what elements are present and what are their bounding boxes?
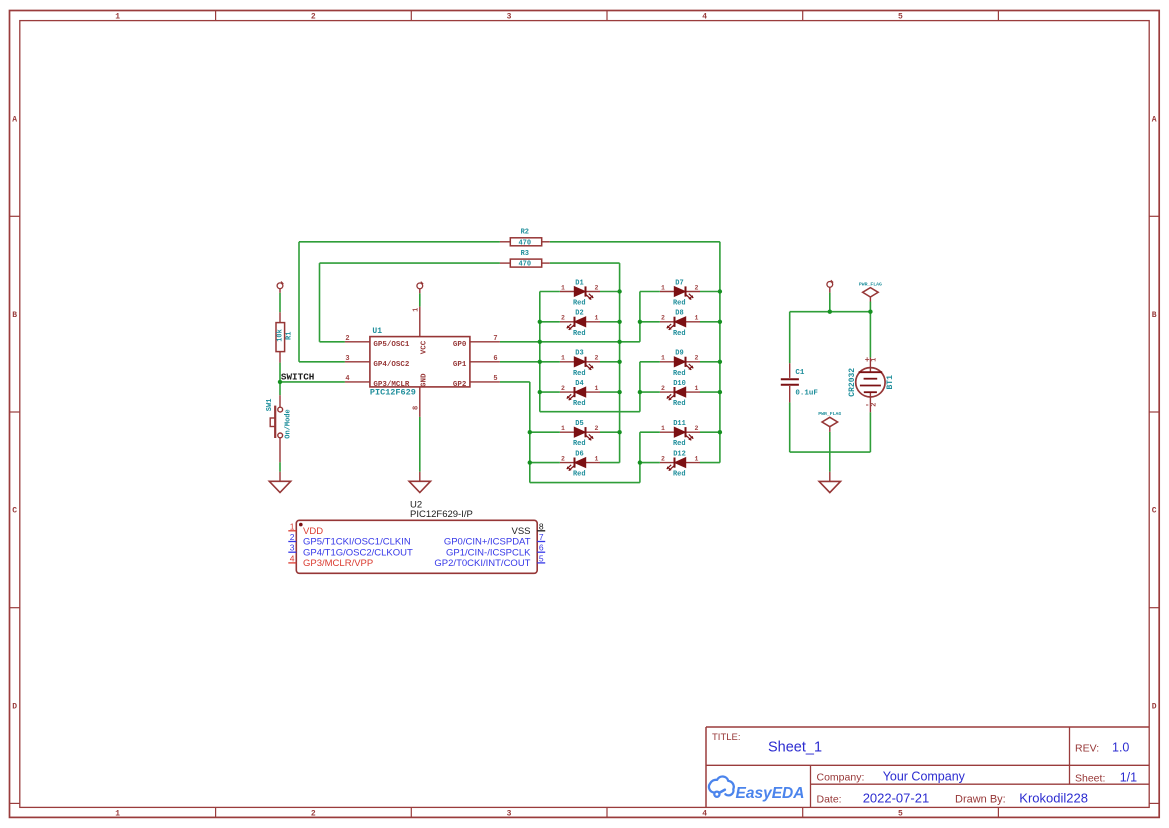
svg-text:Sheet_1: Sheet_1 — [768, 740, 822, 756]
svg-text:VSS: VSS — [511, 526, 530, 537]
svg-text:5: 5 — [493, 375, 497, 383]
svg-text:2: 2 — [695, 284, 699, 291]
svg-text:6: 6 — [493, 355, 497, 363]
svg-text:Red: Red — [673, 400, 686, 408]
svg-text:D11: D11 — [673, 420, 686, 428]
svg-text:D7: D7 — [675, 279, 683, 287]
svg-text:2: 2 — [661, 455, 665, 462]
svg-text:+: + — [865, 356, 870, 365]
svg-text:C: C — [1152, 507, 1157, 516]
svg-text:2: 2 — [561, 385, 565, 392]
svg-text:Date:: Date: — [817, 794, 842, 806]
svg-text:VDD: VDD — [303, 526, 323, 537]
svg-text:GND: GND — [421, 373, 429, 387]
svg-text:TITLE:: TITLE: — [712, 732, 741, 743]
svg-text:GP2/T0CKI/INT/COUT: GP2/T0CKI/INT/COUT — [434, 558, 530, 569]
svg-text:1: 1 — [595, 385, 599, 392]
svg-text:1: 1 — [661, 355, 665, 362]
svg-text:1: 1 — [290, 521, 295, 531]
svg-text:D1: D1 — [575, 279, 583, 287]
svg-text:GP3/MCLR/VPP: GP3/MCLR/VPP — [303, 558, 373, 569]
svg-text:D5: D5 — [575, 420, 583, 428]
svg-text:SW1: SW1 — [266, 399, 274, 412]
svg-text:D8: D8 — [675, 310, 683, 318]
svg-text:BT1: BT1 — [886, 375, 895, 390]
svg-text:VCC: VCC — [421, 340, 429, 354]
svg-text:A: A — [12, 115, 17, 124]
svg-text:Red: Red — [573, 300, 586, 308]
svg-text:Red: Red — [673, 300, 686, 308]
svg-text:3: 3 — [345, 355, 349, 363]
svg-text:D4: D4 — [575, 380, 583, 388]
svg-text:On/Mode: On/Mode — [285, 409, 293, 438]
svg-text:4: 4 — [702, 810, 707, 819]
svg-text:0.1uF: 0.1uF — [795, 389, 818, 397]
svg-text:1/1: 1/1 — [1120, 771, 1137, 785]
svg-text:GP4/OSC2: GP4/OSC2 — [373, 361, 410, 369]
svg-text:B: B — [1152, 311, 1157, 320]
svg-text:SWITCH: SWITCH — [281, 371, 314, 382]
svg-text:2: 2 — [595, 425, 599, 432]
svg-text:Red: Red — [673, 370, 686, 378]
svg-text:4: 4 — [702, 13, 707, 22]
svg-text:7: 7 — [493, 335, 497, 343]
svg-text:GP2: GP2 — [453, 381, 467, 389]
svg-text:Red: Red — [573, 330, 586, 338]
svg-text:2: 2 — [311, 13, 316, 22]
svg-text:1: 1 — [595, 455, 599, 462]
svg-text:1.0: 1.0 — [1112, 741, 1129, 755]
svg-text:Drawn By:: Drawn By: — [955, 794, 1006, 806]
svg-text:A: A — [1152, 115, 1157, 124]
svg-text:1: 1 — [413, 308, 421, 312]
svg-text:D: D — [1152, 702, 1157, 711]
svg-text:D3: D3 — [575, 350, 583, 358]
svg-text:D12: D12 — [673, 451, 686, 459]
svg-text:5: 5 — [898, 810, 903, 819]
svg-text:3: 3 — [507, 13, 512, 22]
svg-text:D9: D9 — [675, 350, 683, 358]
svg-text:Red: Red — [573, 370, 586, 378]
svg-text:GP0: GP0 — [453, 341, 467, 349]
svg-text:GP5/T1CKI/OSC1/CLKIN: GP5/T1CKI/OSC1/CLKIN — [303, 537, 411, 548]
svg-text:D6: D6 — [575, 451, 583, 459]
svg-text:4: 4 — [345, 375, 349, 383]
svg-text:2: 2 — [695, 355, 699, 362]
svg-text:Red: Red — [573, 440, 586, 448]
svg-text:4: 4 — [290, 553, 295, 563]
svg-text:6: 6 — [539, 543, 544, 553]
svg-text:Red: Red — [673, 471, 686, 479]
svg-text:1: 1 — [870, 358, 878, 362]
svg-text:2: 2 — [561, 315, 565, 322]
svg-text:GP5/OSC1: GP5/OSC1 — [373, 341, 410, 349]
svg-text:2: 2 — [595, 355, 599, 362]
svg-text:1: 1 — [115, 13, 120, 22]
svg-text:2: 2 — [870, 402, 878, 406]
svg-text:1: 1 — [115, 810, 120, 819]
svg-text:1: 1 — [661, 425, 665, 432]
svg-text:PWR_FLAG: PWR_FLAG — [818, 411, 841, 417]
svg-text:1: 1 — [695, 315, 699, 322]
svg-text:D: D — [12, 702, 17, 711]
svg-text:Your Company: Your Company — [883, 770, 966, 784]
svg-text:GP3/MCLR: GP3/MCLR — [373, 381, 410, 389]
svg-text:Company:: Company: — [817, 772, 865, 784]
svg-text:C1: C1 — [795, 369, 805, 377]
svg-text:Red: Red — [573, 400, 586, 408]
svg-text:PWR_FLAG: PWR_FLAG — [859, 282, 882, 288]
svg-text:Red: Red — [673, 440, 686, 448]
svg-text:Sheet:: Sheet: — [1075, 773, 1105, 785]
svg-text:D2: D2 — [575, 310, 583, 318]
svg-text:3: 3 — [507, 810, 512, 819]
svg-text:1: 1 — [595, 315, 599, 322]
svg-text:Red: Red — [673, 330, 686, 338]
svg-text:Red: Red — [573, 471, 586, 479]
svg-text:C: C — [12, 507, 17, 516]
svg-text:1: 1 — [561, 355, 565, 362]
svg-text:5: 5 — [539, 553, 544, 563]
svg-text:7: 7 — [539, 532, 544, 542]
svg-text:1: 1 — [695, 385, 699, 392]
svg-text:GP0/CIN+/ICSPDAT: GP0/CIN+/ICSPDAT — [444, 537, 531, 548]
svg-text:2: 2 — [595, 284, 599, 291]
svg-text:GP4/T1G/OSC2/CLKOUT: GP4/T1G/OSC2/CLKOUT — [303, 547, 413, 558]
svg-text:GP1: GP1 — [453, 361, 467, 369]
svg-text:5: 5 — [898, 13, 903, 22]
svg-text:2: 2 — [561, 455, 565, 462]
svg-text:2: 2 — [695, 425, 699, 432]
svg-text:EasyEDA: EasyEDA — [736, 785, 805, 802]
svg-text:Krokodil228: Krokodil228 — [1019, 791, 1088, 806]
svg-text:1: 1 — [661, 284, 665, 291]
svg-text:B: B — [12, 311, 17, 320]
svg-text:GP1/CIN-/ICSPCLK: GP1/CIN-/ICSPCLK — [446, 547, 531, 558]
svg-text:2: 2 — [290, 532, 295, 542]
svg-text:2: 2 — [661, 385, 665, 392]
svg-text:U1: U1 — [372, 327, 382, 336]
svg-text:2: 2 — [661, 315, 665, 322]
svg-text:470: 470 — [518, 239, 531, 247]
svg-text:1: 1 — [561, 284, 565, 291]
svg-text:2022-07-21: 2022-07-21 — [863, 791, 930, 806]
svg-text:10k: 10k — [277, 329, 285, 342]
svg-text:PIC12F629-I/P: PIC12F629-I/P — [410, 509, 473, 520]
svg-text:CR2032: CR2032 — [848, 368, 857, 397]
svg-text:D10: D10 — [673, 380, 686, 388]
svg-text:R2: R2 — [521, 229, 529, 237]
svg-text:R3: R3 — [521, 250, 529, 258]
svg-text:-: - — [865, 401, 870, 410]
svg-text:1: 1 — [561, 425, 565, 432]
svg-text:8: 8 — [539, 521, 544, 531]
svg-text:REV:: REV: — [1075, 743, 1099, 755]
svg-text:470: 470 — [518, 261, 531, 269]
svg-text:8: 8 — [413, 406, 421, 410]
svg-text:2: 2 — [345, 335, 349, 343]
svg-text:2: 2 — [311, 810, 316, 819]
svg-text:3: 3 — [290, 543, 295, 553]
svg-text:1: 1 — [695, 455, 699, 462]
svg-text:R1: R1 — [285, 332, 293, 340]
